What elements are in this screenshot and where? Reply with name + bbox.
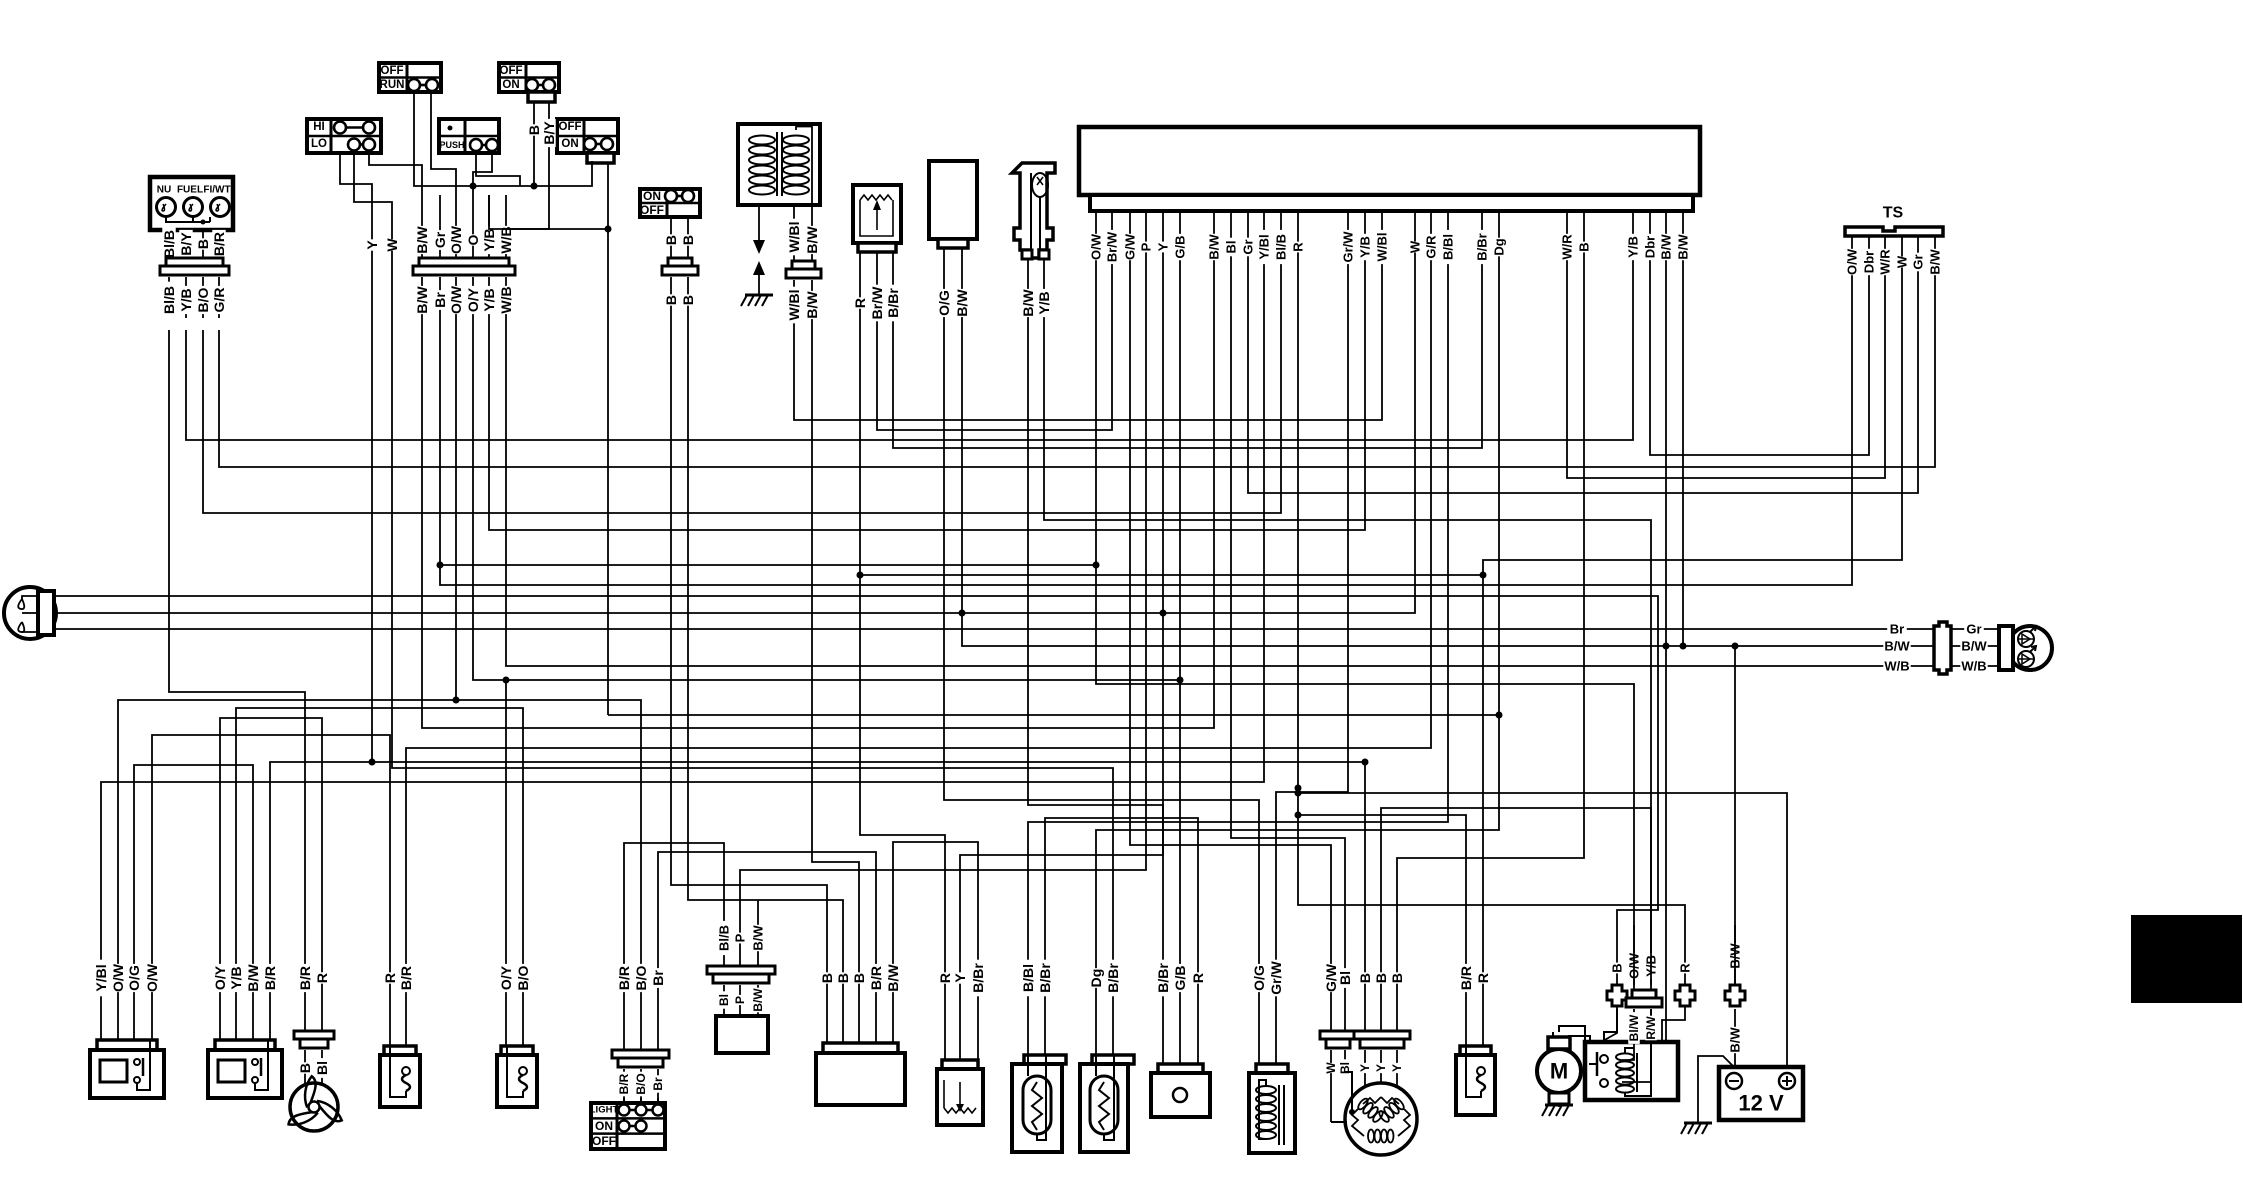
svg-text:OFF: OFF: [640, 203, 664, 217]
svg-text:B/W: B/W: [804, 226, 820, 254]
wire ECU B/Bl to bulb1: [1028, 330, 1448, 925]
wire B switch to CDI: [671, 330, 827, 925]
svg-text:B: B: [1577, 242, 1592, 251]
light switch table: [590, 1098, 665, 1149]
svg-text:OFF: OFF: [500, 65, 523, 77]
switch ON/OFF: [640, 189, 700, 217]
light switch wires: [616, 925, 666, 1098]
wire Br/W sensor to ECU: [877, 330, 1112, 430]
battery 12V: [1719, 1067, 1803, 1120]
svg-text:B/Br: B/Br: [970, 963, 986, 993]
svg-text:B: B: [819, 973, 835, 983]
svg-text:B/Br: B/Br: [1155, 963, 1171, 993]
wire Bl/B cluster to fan: [169, 330, 305, 925]
starter relay: [1585, 1042, 1678, 1100]
coil secondary wires: [786, 205, 820, 261]
magneto connector 1: [1320, 1031, 1356, 1048]
magneto generator: [1345, 1083, 1417, 1155]
TS connector: [1845, 205, 1943, 237]
svg-text:B/R: B/R: [398, 966, 414, 990]
svg-text:Bl/W: Bl/W: [1627, 1014, 1641, 1041]
diode connector: [707, 966, 775, 983]
svg-text:Bl/B: Bl/B: [1274, 234, 1289, 260]
svg-text:B/W: B/W: [751, 925, 766, 951]
cluster lower pin labels: [161, 277, 227, 318]
spark gap and ground: [741, 205, 773, 306]
wire relay1 OW feeder: [118, 700, 456, 925]
svg-text:B/R: B/R: [211, 232, 227, 256]
svg-text:O/W: O/W: [448, 285, 464, 314]
svg-text:Dbr: Dbr: [1862, 251, 1877, 273]
wire W dimmer to bulb2: [392, 330, 1113, 925]
svg-text:Y/Bl: Y/Bl: [1257, 234, 1272, 259]
wire seg 565: [440, 564, 1096, 566]
wire seg 680ext: [506, 679, 1180, 681]
svg-text:B: B: [1610, 963, 1625, 972]
svg-text:G/R: G/R: [211, 288, 227, 313]
svg-text:ON: ON: [561, 138, 578, 150]
svg-text:Dg: Dg: [1492, 238, 1507, 255]
bulb1 wires: [1020, 925, 1053, 1055]
wire B switch to CDI 2: [688, 330, 843, 925]
svg-text:OFF: OFF: [381, 65, 404, 77]
svg-text:R: R: [314, 973, 330, 983]
wire relay1 to sbox1: [152, 735, 390, 925]
svg-text:Gr/W: Gr/W: [1268, 960, 1284, 994]
svg-text:W/Bl: W/Bl: [1375, 233, 1390, 262]
magneto lower wires: [1324, 1050, 1404, 1122]
svg-text:Y/B: Y/B: [1358, 236, 1373, 258]
wire ECU Gr to TS Gr: [1248, 330, 1918, 493]
bulb2 wires: [1088, 925, 1121, 1055]
sensor wires: [852, 252, 901, 330]
svg-text:G/B: G/B: [1172, 966, 1188, 991]
svg-text:O/Y: O/Y: [498, 965, 514, 990]
horn: [1151, 1064, 1210, 1117]
svg-text:O/G: O/G: [1251, 965, 1267, 991]
svg-text:B/W: B/W: [1020, 289, 1036, 317]
svg-text:R: R: [1678, 963, 1693, 973]
svg-text:W: W: [1895, 255, 1910, 268]
svg-text:R: R: [852, 298, 868, 308]
svg-text:Br: Br: [650, 970, 666, 986]
svg-text:R/W: R/W: [1644, 1016, 1658, 1040]
diode wires: [717, 900, 766, 1016]
svg-text:B: B: [526, 125, 542, 135]
svg-text:R: R: [1291, 242, 1306, 252]
svg-text:Y/B: Y/B: [178, 288, 194, 311]
svg-text:OFF: OFF: [559, 121, 582, 133]
fan wires: [297, 925, 330, 1085]
wire relay2 to fan: [220, 718, 322, 925]
svg-text:FI/WT: FI/WT: [203, 185, 230, 196]
svg-text:B: B: [195, 239, 211, 249]
ECU pin wires: [1089, 211, 1691, 330]
svg-text:B/R: B/R: [616, 966, 632, 990]
svg-text:Gr: Gr: [1911, 254, 1926, 269]
svg-text:G/W: G/W: [1123, 233, 1138, 260]
coil lower wires: [786, 280, 820, 330]
svg-text:Bl: Bl: [717, 994, 731, 1006]
wire ECU O/W to fuse O/W: [1096, 330, 1634, 985]
svg-text:Gr: Gr: [432, 231, 448, 248]
ignition switch OFF/ON: [499, 63, 559, 102]
svg-text:O: O: [465, 234, 481, 245]
brake switch OFF/ON: [557, 119, 618, 163]
wire ECU B/W to B/W bus: [1682, 330, 1684, 646]
svg-text:W/B: W/B: [498, 226, 514, 253]
sbox2 wires: [498, 925, 531, 1046]
svg-text:Y: Y: [1390, 1064, 1404, 1072]
svg-text:ON: ON: [502, 79, 519, 91]
switch sensor box 2: [497, 1046, 537, 1107]
wire battery plus: [1298, 793, 1787, 1067]
magneto connector 2: [1354, 1031, 1410, 1048]
svg-text:B/Y: B/Y: [541, 121, 557, 145]
svg-text:TS: TS: [1883, 205, 1904, 222]
svg-text:W: W: [384, 238, 400, 252]
wire ECU G/W to magneto: [1130, 330, 1331, 925]
starter motor M: [1537, 1032, 1581, 1116]
wire headlamp hi: [55, 596, 1658, 925]
wire O/Y main to sbox2: [473, 330, 506, 925]
wire Y/B injector to fuse Y/B: [1044, 330, 1651, 985]
bulb unit 1: [1012, 1055, 1066, 1152]
switch connector: [662, 258, 698, 275]
svg-text:B/W: B/W: [1207, 234, 1222, 260]
wire B/Br sensor to ECU: [893, 330, 1482, 448]
relay2 wires: [212, 925, 278, 1040]
indicator cluster (NU / FUEL / FI-WT lamps): [150, 177, 233, 230]
wire bulb1 to horn R: [1045, 818, 1198, 925]
svg-text:P: P: [1139, 242, 1154, 251]
starter relay connections: [1559, 1009, 1651, 1096]
wire ECU W/R to TS W/R: [1567, 330, 1885, 478]
solenoid wires: [1251, 925, 1284, 1064]
wire W/Bl coil to ECU: [794, 330, 1382, 420]
wire B cluster to ECU Bl/B: [203, 330, 1281, 513]
switch interconnect wires: [414, 92, 612, 715]
cluster pin wires: [161, 226, 227, 263]
svg-text:Gr: Gr: [1241, 239, 1256, 254]
svg-text:Bl: Bl: [314, 1061, 330, 1075]
relay1 wires: [93, 925, 160, 1040]
svg-text:B/R: B/R: [297, 966, 313, 990]
wire O/G reg to solenoid: [944, 330, 1259, 925]
svg-text:B/W: B/W: [1659, 234, 1674, 260]
junction dot 5: [369, 562, 1739, 819]
dimmer output wires Y W: [340, 153, 422, 330]
wire relay2 to sbox2: [236, 708, 523, 925]
svg-text:B/W: B/W: [1676, 234, 1691, 260]
svg-text:B/W: B/W: [1961, 639, 1987, 654]
wire ECU G/R to sbox1: [406, 330, 1431, 925]
light switch connector: [612, 1050, 669, 1067]
fuse 2: [1675, 985, 1695, 1006]
magneto upper wires: [1323, 925, 1405, 1031]
junction dot 3: [959, 610, 966, 617]
svg-text:R: R: [937, 973, 953, 983]
wire CDI to fuel B/Br: [893, 842, 978, 925]
svg-text:B/Br: B/Br: [885, 288, 901, 318]
main connector: [413, 258, 515, 275]
wire ECU Gr/W to solenoid: [1276, 330, 1348, 925]
svg-text:W/Bl: W/Bl: [786, 221, 802, 252]
wire ECU R to fuse R: [1298, 330, 1685, 925]
wire fan R to indicator: [270, 762, 372, 925]
wire B/R cluster to TS B/W: [219, 330, 1935, 467]
junction dot 4: [1362, 759, 1369, 766]
svg-text:O/W: O/W: [448, 225, 464, 254]
wire ECU Y to fuel: [960, 330, 1163, 925]
svg-text:B/W: B/W: [751, 988, 765, 1012]
svg-text:B/Br: B/Br: [1037, 963, 1053, 993]
injector wires: [1020, 259, 1052, 330]
wire seg 715: [608, 714, 1499, 716]
svg-text:O/W: O/W: [1845, 248, 1860, 275]
fuse lower wires: [1601, 1006, 1685, 1082]
wire ECU Y/Bl to relay1: [101, 330, 1264, 925]
wire R sensor to fuel: [860, 330, 945, 925]
switch pin wires: [663, 217, 696, 258]
fuse top wires: [1610, 925, 1743, 990]
wire B/W main to ECU B/W: [422, 330, 1214, 728]
solenoid coil: [1249, 1064, 1295, 1153]
wire relay1 to relay2: [134, 765, 253, 925]
svg-text:B/W: B/W: [885, 964, 901, 992]
svg-text:W: W: [1324, 1062, 1338, 1074]
svg-text:Y/Bl: Y/Bl: [93, 964, 109, 991]
regulator box: [929, 161, 977, 248]
svg-text:B: B: [663, 235, 679, 245]
junction dot 2: [1160, 610, 1167, 617]
svg-text:R: R: [1475, 973, 1491, 983]
svg-text:B/Br: B/Br: [1475, 233, 1490, 260]
svg-text:O/G: O/G: [936, 290, 952, 316]
svg-text:NU: NU: [157, 185, 171, 196]
wire seg 575: [860, 574, 1483, 576]
svg-text:B: B: [851, 973, 867, 983]
tail label overlay: [1883, 622, 1987, 674]
svg-text:W/R: W/R: [1878, 249, 1893, 275]
svg-text:B: B: [1389, 973, 1405, 983]
fuse conn: [1626, 990, 1662, 1007]
switch sensor box 3: [1456, 1046, 1495, 1115]
svg-text:B/Bl: B/Bl: [1020, 964, 1036, 992]
svg-text:B: B: [680, 235, 696, 245]
dimmer switch HI/LO: [307, 119, 381, 153]
wire O/W main to light switch: [456, 330, 641, 925]
wire headlamp common to ECU W: [55, 330, 1415, 613]
svg-text:B/Y: B/Y: [178, 232, 194, 256]
svg-text:O/W: O/W: [110, 963, 126, 992]
main harness lower wires: [414, 277, 514, 330]
svg-text:Y/B: Y/B: [481, 228, 497, 251]
black label box: [2131, 915, 2242, 1003]
svg-text:Br/W: Br/W: [869, 286, 885, 319]
wire headlamp lo to tail Br: [55, 628, 1934, 630]
svg-text:Y: Y: [1374, 1064, 1388, 1072]
svg-text:B/W: B/W: [245, 964, 261, 992]
svg-text:OFF: OFF: [592, 1134, 616, 1148]
svg-text:Bl/B: Bl/B: [161, 286, 177, 314]
svg-text:P: P: [733, 933, 748, 942]
wire ECU P to diode: [740, 330, 1146, 900]
svg-text:O/W: O/W: [144, 963, 160, 992]
svg-text:G/B: G/B: [1173, 235, 1188, 258]
svg-text:W/B: W/B: [1884, 659, 1909, 674]
svg-text:B: B: [835, 973, 851, 983]
svg-text:B/O: B/O: [633, 965, 649, 990]
svg-text:Br: Br: [651, 1077, 665, 1091]
svg-text:Bl/B: Bl/B: [717, 925, 732, 951]
svg-text:B/R: B/R: [262, 966, 278, 990]
wire light to diode: [624, 843, 724, 925]
ignition coil: [738, 124, 820, 205]
wire ECU Dbr to TS Dbr: [1650, 330, 1869, 455]
diode box: [716, 1016, 768, 1053]
wire sbox3 B/R up: [1298, 815, 1466, 925]
wire ECU B to magneto B: [1397, 330, 1584, 925]
ECU box: [1079, 127, 1700, 211]
svg-text:ON: ON: [643, 189, 661, 203]
svg-text:B: B: [297, 1063, 313, 1073]
svg-text:B/W: B/W: [1728, 1027, 1743, 1053]
svg-text:Y/B: Y/B: [1626, 236, 1641, 258]
wire light Br to CDI: [658, 852, 876, 925]
TS pin wires: [1845, 236, 1943, 330]
svg-text:Br/W: Br/W: [1105, 231, 1120, 262]
tail connector: [1934, 622, 1951, 674]
svg-text:B: B: [1357, 973, 1373, 983]
CDI unit: [816, 1043, 905, 1105]
svg-text:B: B: [1373, 973, 1389, 983]
fuse 3: [1725, 985, 1745, 1006]
fuel level sensor: [937, 1060, 983, 1125]
svg-text:B/W: B/W: [414, 226, 430, 254]
wire Y/B main to ECU Y/B: [489, 330, 1365, 530]
svg-text:B/W: B/W: [954, 289, 970, 317]
main harness upper wires: [414, 195, 514, 258]
svg-text:Y/B: Y/B: [228, 966, 244, 989]
engine stop switch OFF/RUN: [379, 63, 441, 92]
svg-text:Bl: Bl: [1337, 971, 1353, 985]
svg-text:W/R: W/R: [1560, 234, 1575, 260]
svg-text:Gr: Gr: [1966, 622, 1981, 637]
svg-text:B: B: [680, 295, 696, 305]
svg-text:O/Y: O/Y: [465, 287, 481, 312]
svg-text:Gr/W: Gr/W: [1341, 231, 1356, 263]
svg-text:Bl/B: Bl/B: [161, 230, 177, 258]
headlamp: [4, 587, 56, 639]
svg-text:Y: Y: [1156, 242, 1171, 251]
svg-text:Bl: Bl: [1224, 241, 1239, 254]
wire B/Y cluster to ECU Y/B: [186, 330, 1633, 440]
magneto internal wires: [1331, 1072, 1355, 1122]
wire ECU Dg to bulb2: [1096, 330, 1499, 925]
wire ECU Bl to magneto Bl: [1231, 330, 1345, 925]
svg-text:B/W: B/W: [1884, 639, 1910, 654]
svg-text:12 V: 12 V: [1738, 1091, 1784, 1116]
relay 2 (starter relay): [208, 1040, 282, 1098]
sensor (resistive): [853, 185, 901, 252]
starter button PUSH: [439, 119, 499, 153]
svg-text:B/Bl: B/Bl: [1441, 234, 1456, 260]
sbox1 wires: [382, 925, 414, 1046]
svg-text:B/R: B/R: [617, 1073, 631, 1094]
svg-text:HI: HI: [313, 121, 325, 133]
regulator wires: [936, 248, 970, 330]
wire Br main to TS O/W: [440, 330, 1852, 585]
svg-text:B/O: B/O: [195, 287, 211, 312]
injector component: [1012, 163, 1055, 259]
horn wires: [1155, 925, 1206, 1064]
fuse 1: [1607, 985, 1627, 1006]
cooling fan: [288, 1076, 342, 1132]
coil connector: [786, 261, 821, 278]
tail lamp wires: [1883, 622, 1999, 674]
sbox3 wires: [1458, 925, 1491, 1046]
svg-text:Y: Y: [952, 973, 968, 983]
svg-text:LO: LO: [311, 138, 327, 150]
svg-text:O/Y: O/Y: [212, 965, 228, 990]
svg-text:R: R: [1190, 973, 1206, 983]
svg-text:W: W: [1408, 240, 1423, 253]
svg-text:M: M: [1550, 1059, 1568, 1084]
svg-text:O/G: O/G: [126, 965, 142, 991]
svg-text:W/Bl: W/Bl: [786, 289, 802, 320]
CDI wires: [819, 925, 901, 1043]
wire B/W reg to tail lamp: [962, 330, 1934, 646]
svg-text:Y: Y: [1358, 1064, 1372, 1072]
svg-text:Dbr: Dbr: [1643, 236, 1658, 258]
wire W/B main to tail W/B: [506, 330, 1934, 666]
wire magneto to fuse Y/B: [1381, 808, 1651, 925]
svg-text:O/W: O/W: [1089, 233, 1104, 260]
wire fuse B/W feeder: [1734, 646, 1736, 985]
svg-text:LIGHT: LIGHT: [590, 1105, 619, 1116]
battery wires and ground: [1681, 1009, 1743, 1134]
svg-text:PUSH: PUSH: [439, 140, 464, 150]
svg-text:R: R: [382, 973, 398, 983]
svg-text:ON: ON: [595, 1119, 613, 1133]
svg-text:Br: Br: [1890, 622, 1904, 637]
fuel sensor wires: [937, 925, 986, 1069]
svg-text:B/R: B/R: [1458, 966, 1474, 990]
wire ECU G/B to horn: [1179, 330, 1181, 925]
fan connector: [294, 1031, 334, 1048]
svg-text:Y/B: Y/B: [1036, 291, 1052, 314]
wire Y dimmer to magneto: [372, 330, 1365, 925]
svg-text:W/B: W/B: [1961, 659, 1986, 674]
svg-text:B/O: B/O: [634, 1073, 648, 1094]
svg-text:B/W: B/W: [1928, 249, 1943, 275]
wire B/W injector to horn: [1028, 330, 1163, 925]
switch sensor box 1: [380, 1046, 420, 1107]
svg-text:B/Br: B/Br: [1105, 963, 1121, 993]
wire ECU B/W to relay: [1665, 330, 1667, 1042]
svg-text:B/W: B/W: [414, 286, 430, 314]
tail lamp: [1999, 626, 2052, 670]
svg-text:Y/B: Y/B: [481, 288, 497, 311]
svg-text:Br: Br: [432, 292, 448, 308]
svg-text:B: B: [663, 295, 679, 305]
svg-text:W/B: W/B: [498, 286, 514, 313]
svg-text:B/R: B/R: [868, 966, 884, 990]
svg-text:FUEL: FUEL: [177, 185, 203, 196]
svg-text:G/R: G/R: [1424, 235, 1439, 259]
svg-text:Y: Y: [364, 240, 380, 250]
